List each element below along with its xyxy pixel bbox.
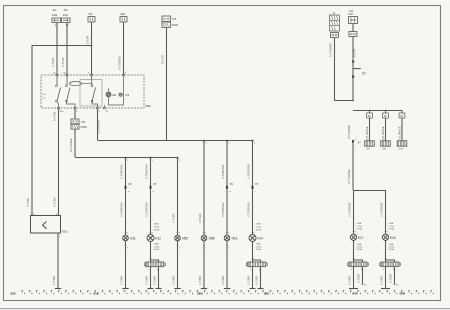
inline connector A7 xyxy=(352,61,366,78)
track label 540 xyxy=(353,292,358,296)
track label 505 xyxy=(11,292,16,296)
lamp E18 xyxy=(382,234,395,240)
pin stub U30 xyxy=(381,110,391,151)
svg-text:WWR: WWR xyxy=(81,126,88,129)
wire label H12 upper xyxy=(145,164,149,179)
lamp H14 wire codes xyxy=(256,224,262,232)
svg-text:505: 505 xyxy=(11,292,16,296)
svg-text:0.5 GR/SW: 0.5 GR/SW xyxy=(247,202,251,217)
S52 switch contact b xyxy=(66,76,75,108)
ground foot H14 b xyxy=(258,288,264,290)
wire branch E18 xyxy=(353,190,386,192)
wire label H11 upper xyxy=(120,164,124,178)
track label 510 xyxy=(94,292,99,296)
svg-text:m: m xyxy=(229,191,231,193)
pin 10 xyxy=(55,25,58,27)
wire column H12 xyxy=(150,157,154,235)
svg-text:1-HB: 1-HB xyxy=(256,244,261,246)
svg-text:4-P5b: 4-P5b xyxy=(154,229,160,231)
wire column E18 xyxy=(379,190,389,234)
ground foot H11 xyxy=(122,288,128,290)
wire label H12 lower xyxy=(145,202,149,217)
wire label H55 xyxy=(172,214,176,223)
svg-text:0.5 BR: 0.5 BR xyxy=(172,276,176,285)
wire connector X13 to bus2 xyxy=(69,129,75,157)
S52 lamp wiring xyxy=(105,76,124,108)
svg-text:L-P5a: L-P5a xyxy=(357,226,363,228)
svg-text:30A: 30A xyxy=(53,9,58,12)
S52 switch contact a xyxy=(56,76,61,108)
wire S52 pin 2 to bus1 xyxy=(96,109,100,140)
ground wire E17 xyxy=(348,267,354,289)
S52 position labels xyxy=(43,94,47,100)
svg-text:1-HB: 1-HB xyxy=(389,244,394,246)
svg-text:0.5 BR: 0.5 BR xyxy=(357,274,361,283)
svg-text:S52: S52 xyxy=(146,104,152,108)
wire label H13 lower xyxy=(221,202,225,216)
page edge shadow xyxy=(0,308,450,310)
svg-text:0.5 BR: 0.5 BR xyxy=(389,274,393,283)
svg-text:L-P5a: L-P5a xyxy=(154,246,160,248)
svg-text:0.5 SW/GE: 0.5 SW/GE xyxy=(347,169,351,183)
svg-text:4-P5b: 4-P5b xyxy=(389,249,395,251)
pins below H14 strip xyxy=(250,269,262,271)
wire column H55 xyxy=(177,157,181,235)
svg-text:0.5 BR/SW: 0.5 BR/SW xyxy=(221,164,225,178)
ground foot E18 xyxy=(381,288,390,290)
svg-text:1-HB: 1-HB xyxy=(357,244,362,246)
svg-text:X9: X9 xyxy=(230,182,234,186)
ground foot E17 xyxy=(349,288,358,290)
connector below A1 xyxy=(331,33,339,38)
svg-text:H55: H55 xyxy=(182,237,188,241)
svg-text:0.5 BR: 0.5 BR xyxy=(153,276,157,285)
svg-text:1-HB: 1-HB xyxy=(389,223,394,225)
svg-text:0.5 BR: 0.5 BR xyxy=(255,276,259,285)
svg-text:0.5 SW/GE: 0.5 SW/GE xyxy=(329,43,333,57)
svg-text:E17: E17 xyxy=(358,236,364,240)
lamp H13 xyxy=(224,235,237,241)
ground wire E18 xyxy=(380,267,386,289)
wire S52 pin 8 down xyxy=(74,109,76,119)
wire column H58 xyxy=(203,140,207,235)
svg-text:1-HB: 1-HB xyxy=(154,244,159,246)
fuse F22 xyxy=(52,18,61,23)
svg-text:0.5 BR/SW: 0.5 BR/SW xyxy=(120,202,124,216)
lamp E17 xyxy=(350,234,363,240)
wire branch to pin row xyxy=(353,110,402,112)
svg-text:0.5 BR/SW: 0.5 BR/SW xyxy=(120,164,124,178)
ground wire H14 a xyxy=(247,267,253,289)
S52 switch contact c xyxy=(91,76,97,108)
svg-text:U30: U30 xyxy=(120,12,125,16)
svg-text:4-P5b: 4-P5b xyxy=(256,249,262,251)
svg-text:4-P5b: 4-P5b xyxy=(389,229,395,231)
svg-text:U3: U3 xyxy=(125,93,129,97)
ground wire H58 xyxy=(198,241,207,289)
lamp E18 wire codes xyxy=(389,223,395,231)
wire column E17 xyxy=(347,190,357,234)
svg-text:4-P5b: 4-P5b xyxy=(357,249,363,251)
wire A1 down xyxy=(329,38,353,101)
svg-text:0.5 GR/SW: 0.5 GR/SW xyxy=(96,119,100,134)
ground wire H12 a xyxy=(145,267,151,289)
connector X13 xyxy=(71,119,87,129)
ground wire H11 xyxy=(120,241,129,289)
svg-text:0.5 BR: 0.5 BR xyxy=(380,276,384,285)
pin 16 xyxy=(66,25,69,27)
svg-text:H6: H6 xyxy=(112,93,116,97)
svg-text:0.5 SW: 0.5 SW xyxy=(53,111,57,121)
lamp H12 xyxy=(147,235,161,242)
lamp E17 lower codes xyxy=(357,244,363,251)
svg-text:L-P5a: L-P5a xyxy=(389,226,395,228)
fuse holder A1 xyxy=(330,13,340,31)
svg-text:4-P5b: 4-P5b xyxy=(256,229,262,231)
track label 550 xyxy=(400,292,405,296)
ground foot H12 a xyxy=(148,288,154,290)
connector below F18 xyxy=(349,32,357,37)
wire F18 to junction xyxy=(352,37,356,101)
svg-text:0.5 BR: 0.5 BR xyxy=(247,276,251,285)
ground foot H58 xyxy=(201,288,207,290)
svg-text:H13: H13 xyxy=(232,237,238,241)
S52 bottom pins xyxy=(58,107,109,113)
wire connector U30 to S52 pin 6 xyxy=(118,22,124,75)
svg-text:0.5 GR/SW: 0.5 GR/SW xyxy=(145,164,149,179)
S52 inner frame xyxy=(80,80,102,107)
lamp H55 xyxy=(175,235,188,241)
connector X9 xyxy=(124,182,131,193)
fuse F11 label xyxy=(63,9,68,17)
ground foot H12 b xyxy=(156,288,162,290)
svg-text:0.5 BR: 0.5 BR xyxy=(86,35,90,44)
node J1 branch junction xyxy=(91,45,93,47)
wire branch to K16 xyxy=(26,46,91,217)
svg-text:L-P5a: L-P5a xyxy=(357,247,363,249)
svg-text:A7: A7 xyxy=(362,71,366,75)
connector X7 right xyxy=(352,139,361,148)
ground foot H55 xyxy=(174,288,180,290)
K16 ground foot xyxy=(55,288,61,290)
ground foot H13 xyxy=(224,288,230,290)
svg-text:0.5 BR: 0.5 BR xyxy=(198,276,202,285)
svg-text:0.5 GR: 0.5 GR xyxy=(172,214,176,223)
svg-text:X7: X7 xyxy=(255,182,259,186)
svg-text:F18: F18 xyxy=(349,13,354,16)
wire E17 pin 10 xyxy=(357,267,368,287)
svg-text:U7B: U7B xyxy=(399,149,404,151)
S52 coil xyxy=(70,82,93,86)
svg-text:H58: H58 xyxy=(209,237,215,241)
svg-text:m: m xyxy=(128,191,130,193)
svg-text:4-P5b: 4-P5b xyxy=(357,229,363,231)
wire connector 5.8 to S52 xyxy=(86,22,92,75)
fuse F22 label xyxy=(52,9,58,17)
svg-text:F11: F11 xyxy=(63,13,68,17)
wire column H14 xyxy=(252,140,256,235)
connector strip below H12 xyxy=(144,262,165,267)
svg-text:550: 550 xyxy=(400,292,405,296)
svg-text:TU5: TU5 xyxy=(172,18,177,21)
wire E18 pin 10 xyxy=(389,267,400,287)
svg-text:530: 530 xyxy=(264,292,269,296)
svg-text:1-HB: 1-HB xyxy=(154,224,159,226)
pins below E18 strip xyxy=(383,269,396,271)
K16 ground wire xyxy=(52,233,61,289)
svg-text:0.5 GR/SW: 0.5 GR/SW xyxy=(145,202,149,217)
node J2 xyxy=(352,100,354,102)
wire label H13 upper xyxy=(221,164,225,178)
wire S52 to K16 xyxy=(53,109,59,216)
svg-text:0.5 BR/SW: 0.5 BR/SW xyxy=(221,202,225,216)
svg-text:0.5 GR: 0.5 GR xyxy=(198,214,202,223)
lamp E17 wire codes xyxy=(357,223,363,231)
control unit K16 xyxy=(31,216,68,234)
svg-text:H11: H11 xyxy=(130,237,136,241)
connector X7 xyxy=(149,182,156,193)
svg-text:0.5 BR: 0.5 BR xyxy=(145,276,149,285)
svg-text:520: 520 xyxy=(198,292,203,296)
svg-text:WWR: WWR xyxy=(172,24,179,27)
svg-text:5.8: 5.8 xyxy=(89,12,93,16)
svg-text:0.5 SW: 0.5 SW xyxy=(61,57,65,67)
connector 5.8 xyxy=(88,12,95,22)
svg-text:L-P5a: L-P5a xyxy=(389,247,395,249)
svg-text:X7: X7 xyxy=(153,182,157,186)
ground wire H12 b xyxy=(153,267,159,289)
wire E17 to strip xyxy=(353,240,363,262)
svg-text:0.5 SW/GE: 0.5 SW/GE xyxy=(381,126,385,139)
ground wire H13 xyxy=(221,241,230,289)
lamp H12 wire codes xyxy=(154,224,160,232)
svg-text:0.5 BR: 0.5 BR xyxy=(52,276,56,285)
connector X7 xyxy=(251,182,258,193)
svg-text:0.5 SW/GE: 0.5 SW/GE xyxy=(347,202,351,216)
wire E18 to strip xyxy=(385,240,395,262)
pin stub TH1 xyxy=(365,110,375,151)
svg-text:0.5 BR: 0.5 BR xyxy=(221,276,225,285)
wire connector TU5 to bus xyxy=(161,28,167,141)
wire H14 to connector xyxy=(252,242,261,263)
lamp H6 xyxy=(106,92,129,97)
ground wire H14 b xyxy=(255,267,261,289)
wire bus1 xyxy=(98,140,253,142)
fuse F18 xyxy=(349,17,358,24)
svg-text:K16: K16 xyxy=(62,230,68,234)
wire fuse F11 to S52 xyxy=(61,23,67,76)
connector strip below E17 xyxy=(347,262,368,267)
svg-text:0.5 BR: 0.5 BR xyxy=(26,198,30,207)
wire label H14 upper xyxy=(247,164,251,179)
lamp E18 lower codes xyxy=(389,244,395,251)
svg-text:X9: X9 xyxy=(128,182,132,186)
lamp H11 xyxy=(123,235,136,241)
svg-text:X7: X7 xyxy=(358,141,362,145)
track label 530 xyxy=(264,292,269,296)
switch unit S52 xyxy=(41,75,151,108)
lamp H14 lower codes xyxy=(256,244,262,252)
K16 top pins xyxy=(33,214,58,216)
svg-text:0.5 RT: 0.5 RT xyxy=(352,48,356,57)
track label 520 xyxy=(198,292,203,296)
svg-text:510: 510 xyxy=(94,292,99,296)
svg-text:540: 540 xyxy=(353,292,358,296)
svg-text:0.5 GR/GE: 0.5 GR/GE xyxy=(69,138,73,152)
lamp H14 xyxy=(249,235,263,242)
svg-text:0.5 SW/GE: 0.5 SW/GE xyxy=(347,125,351,139)
svg-text:0.5 GN: 0.5 GN xyxy=(51,58,55,67)
connector X9 xyxy=(226,182,233,193)
wire label H58 xyxy=(198,214,202,223)
svg-text:0.5 SW: 0.5 SW xyxy=(53,197,57,207)
svg-text:0.5 SW/GE: 0.5 SW/GE xyxy=(379,202,383,216)
wire main to E-lamps xyxy=(347,143,353,190)
pin stub U7B xyxy=(397,110,407,151)
svg-text:0.5 BR: 0.5 BR xyxy=(348,276,352,285)
connector strip below H14 xyxy=(246,262,267,267)
svg-text:1-HB: 1-HB xyxy=(357,223,362,225)
svg-text:L-P5a: L-P5a xyxy=(256,246,262,248)
svg-text:0.5 GR: 0.5 GR xyxy=(161,55,165,64)
svg-text:L-P5a: L-P5a xyxy=(256,227,262,229)
svg-text:0.5 GR/GE: 0.5 GR/GE xyxy=(118,56,122,70)
wire label H14 lower xyxy=(247,202,251,217)
svg-text:0.5 BR: 0.5 BR xyxy=(120,276,124,285)
track rail ticks xyxy=(22,290,434,294)
connector U30 xyxy=(120,12,127,22)
svg-text:F22: F22 xyxy=(52,13,58,17)
connector TU5 xyxy=(162,16,178,28)
svg-text:E18: E18 xyxy=(390,236,396,240)
svg-text:1-HB: 1-HB xyxy=(256,224,261,226)
wire column H13 xyxy=(226,140,230,235)
wire bus2 xyxy=(75,157,178,159)
wire column H11 xyxy=(125,157,129,235)
pins below E17 strip xyxy=(351,269,364,271)
connector strip below E18 xyxy=(379,262,400,267)
S52 top pins xyxy=(53,73,127,76)
svg-text:0.5 SW/GE: 0.5 SW/GE xyxy=(365,126,369,139)
lamp H58 xyxy=(201,235,214,241)
wire H12 to connector xyxy=(150,242,159,263)
svg-text:4-P5b: 4-P5b xyxy=(154,249,160,251)
svg-text:TU5: TU5 xyxy=(81,121,86,124)
wire label main right xyxy=(347,125,351,139)
svg-text:L-P5a: L-P5a xyxy=(154,227,160,229)
svg-text:H12: H12 xyxy=(155,237,161,241)
wire label H11 lower xyxy=(120,202,124,216)
svg-text:0.5 SW/GE: 0.5 SW/GE xyxy=(397,126,401,139)
ground wire H55 xyxy=(172,241,181,289)
fuse F11 xyxy=(62,18,71,23)
ground foot H14 a xyxy=(250,288,256,290)
fuse F18 label xyxy=(349,11,354,16)
wire F18 stub xyxy=(352,24,354,32)
svg-text:15A: 15A xyxy=(64,9,69,12)
lamp H12 lower codes xyxy=(154,244,160,252)
wire fuse F22 to S52 xyxy=(51,23,57,76)
svg-text:0.5 GR/SW: 0.5 GR/SW xyxy=(247,164,251,179)
svg-text:H14: H14 xyxy=(257,237,263,241)
pins below H12 strip xyxy=(148,269,160,271)
